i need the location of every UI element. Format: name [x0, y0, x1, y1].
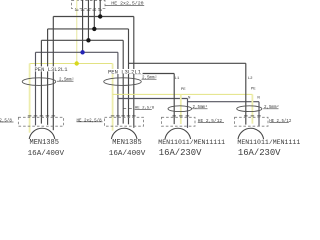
- svg-text:MEN1385: MEN1385: [30, 139, 59, 147]
- svg-text:N: N: [188, 96, 191, 100]
- svg-text:2,5mm²: 2,5mm²: [59, 77, 74, 83]
- svg-text:16A/230V: 16A/230V: [159, 148, 202, 156]
- svg-text:HE 2,5/12: HE 2,5/12: [269, 119, 292, 124]
- svg-text:N: N: [257, 97, 260, 101]
- svg-text:MEN11011/MEN11111: MEN11011/MEN11111: [158, 139, 225, 146]
- svg-text:16A/400V: 16A/400V: [109, 150, 146, 156]
- svg-text:HE 2,5/8: HE 2,5/8: [135, 106, 155, 111]
- svg-text:HE 2,5/8: HE 2,5/8: [0, 118, 12, 123]
- svg-text:L2: L2: [248, 77, 253, 81]
- svg-text:2,5mm²: 2,5mm²: [264, 104, 279, 110]
- svg-text:2,5mm²: 2,5mm²: [142, 75, 157, 81]
- svg-text:HE 2x2,5/20: HE 2x2,5/20: [111, 1, 143, 7]
- svg-text:MEN1385: MEN1385: [112, 139, 141, 147]
- svg-text:L1: L1: [175, 77, 180, 81]
- svg-text:MEN11011/MEN11111: MEN11011/MEN11111: [237, 139, 300, 146]
- svg-text:16A/400V: 16A/400V: [28, 150, 65, 156]
- svg-text:HE 2,5/12: HE 2,5/12: [198, 118, 223, 124]
- svg-text:PEN L3L2L1: PEN L3L2L1: [35, 66, 69, 73]
- svg-text:PE: PE: [181, 88, 186, 92]
- svg-text:16A/230V: 16A/230V: [238, 148, 281, 156]
- svg-text:PEN L3L2L1: PEN L3L2L1: [108, 68, 142, 75]
- svg-text:HE 2x2,5/8: HE 2x2,5/8: [77, 118, 103, 123]
- svg-text:PE: PE: [251, 87, 256, 91]
- svg-text:2,5mm²: 2,5mm²: [193, 104, 208, 110]
